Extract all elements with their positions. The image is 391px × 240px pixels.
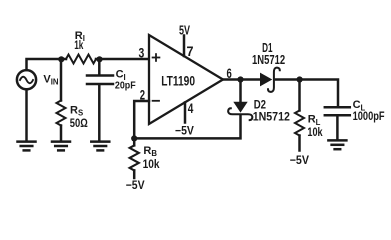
svg-text:5V: 5V: [179, 22, 190, 37]
wire RS to ground: [60, 126, 63, 141]
wire D1 cathode to CL corner: [276, 80, 338, 107]
ground (CI): [91, 142, 109, 151]
wire node A to RS: [60, 59, 63, 101]
svg-text:−5V: −5V: [290, 153, 309, 167]
svg-text:6: 6: [227, 65, 232, 81]
node B junction: [96, 56, 102, 62]
diode D2 1N5712: [228, 80, 252, 121]
op-amp U1 LT1190: [149, 35, 223, 124]
diode D1 1N5712: [260, 68, 280, 92]
node RL junction: [297, 76, 303, 82]
resistor RB: [130, 138, 139, 178]
svg-text:50Ω: 50Ω: [70, 116, 88, 130]
node A junction: [58, 56, 64, 62]
resistor RS: [57, 101, 66, 126]
svg-text:−5V: −5V: [126, 178, 145, 192]
resistor RL: [295, 80, 304, 151]
svg-text:4: 4: [188, 100, 194, 116]
svg-text:10k: 10k: [307, 125, 322, 139]
wire VIN bottom to ground: [25, 89, 28, 140]
capacitor CL: [325, 107, 350, 139]
pin 4: [184, 103, 187, 123]
ground (RS): [52, 142, 70, 151]
pin 7: [183, 36, 186, 57]
svg-text:−5V: −5V: [175, 124, 194, 138]
ground (CL): [328, 140, 346, 149]
resistor RI: [66, 55, 96, 64]
svg-text:1000pF: 1000pF: [353, 111, 385, 123]
output node junction: [237, 76, 243, 82]
svg-text:LT1190: LT1190: [161, 73, 195, 89]
capacitor CI: [87, 59, 113, 141]
svg-text:1N5712: 1N5712: [253, 110, 290, 124]
svg-text:VIN: VIN: [43, 73, 59, 86]
svg-text:20pF: 20pF: [115, 80, 136, 92]
AC source VIN: [17, 70, 36, 89]
wire pin 2 stub down to node FB: [134, 101, 149, 138]
node FB junction: [131, 135, 137, 141]
svg-text:7: 7: [187, 43, 194, 59]
svg-text:1k: 1k: [74, 40, 84, 52]
wire feedback line to D2 cathode: [134, 116, 240, 138]
wire node B to op-amp pin 3: [96, 58, 149, 61]
wire op-amp output to D1: [223, 78, 261, 81]
ground (VIN): [18, 142, 36, 151]
wire VIN top to node A: [27, 59, 67, 70]
svg-text:10k: 10k: [143, 157, 160, 171]
minus input mark: [153, 100, 159, 102]
svg-text:1N5712: 1N5712: [252, 52, 285, 67]
svg-text:3: 3: [139, 44, 145, 60]
plus input mark: [153, 54, 160, 61]
